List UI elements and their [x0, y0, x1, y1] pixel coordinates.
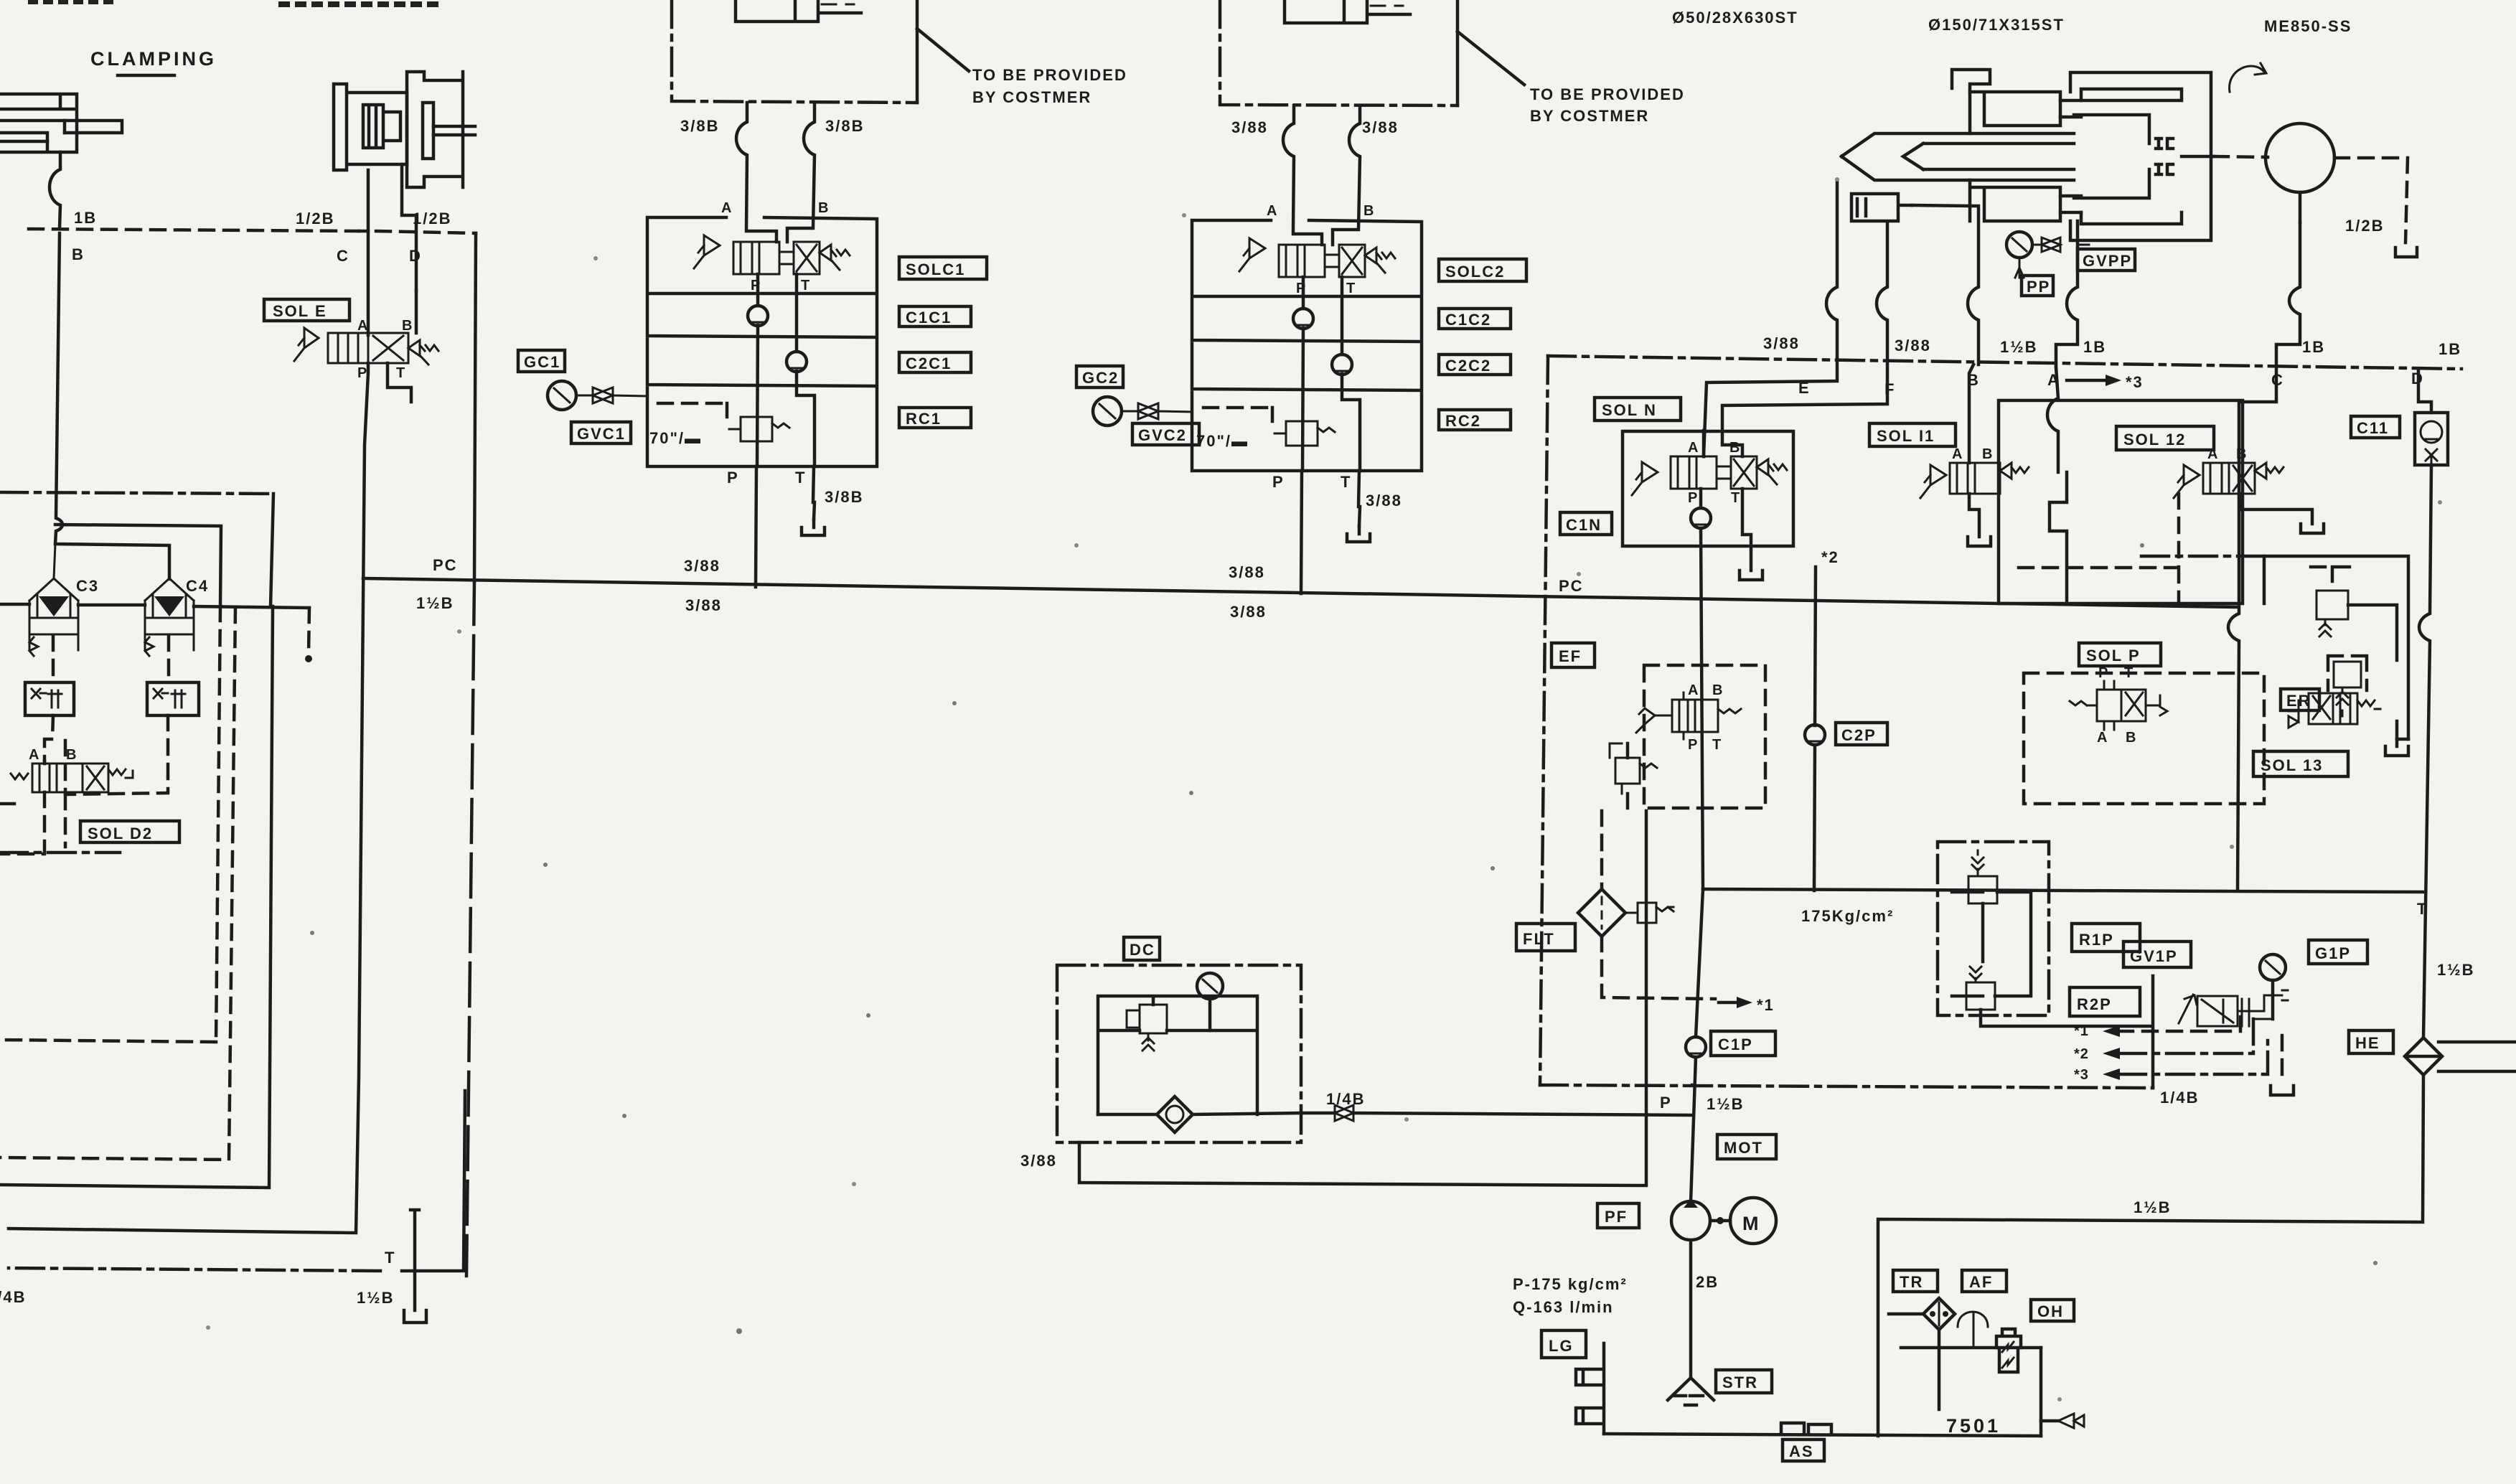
gauge GC2: [1076, 366, 1123, 388]
rotation arrow: [2230, 63, 2266, 92]
label R1P connection line: [1691, 1084, 1694, 1087]
label AS: [1783, 1440, 1824, 1461]
svg-text:1/2B: 1/2B: [296, 210, 334, 227]
check valve C11: [2415, 413, 2448, 465]
svg-text:ME850-SS: ME850-SS: [2264, 17, 2352, 35]
level gauge LG: [1576, 1343, 1604, 1434]
wire P with check: [757, 274, 758, 466]
wire SOL I1 drain: [1968, 494, 1991, 546]
wire FLT dashed connections: [1602, 811, 1715, 999]
svg-text:1/4B: 1/4B: [1326, 1090, 1365, 1108]
motor M1 circle: [2266, 123, 2334, 192]
svg-text:SOLC1: SOLC1: [906, 260, 965, 278]
label GVC1: [571, 422, 631, 443]
clamping cylinder rod: [0, 121, 65, 141]
box SOL P dashed: [2024, 673, 2264, 804]
reducing valve EF dashed box: [1644, 665, 1765, 808]
wire C below line2: [2228, 369, 2276, 891]
wire B hose loop: [787, 103, 815, 242]
strainer STR: [1668, 1378, 1714, 1405]
svg-text:T: T: [1712, 737, 1722, 753]
svg-text:FLT: FLT: [1523, 930, 1555, 948]
svg-text:B: B: [1712, 682, 1723, 698]
label C1C1: [899, 306, 971, 327]
reducing valve EF: [1636, 682, 1741, 753]
wire P to PC: [756, 466, 756, 587]
wire E line with loop: [1704, 180, 1837, 456]
heater OH: [1999, 1348, 2018, 1372]
svg-text:70"/▬: 70"/▬: [1196, 432, 1249, 450]
svg-text:3/88: 3/88: [684, 557, 720, 575]
svg-text:T: T: [795, 469, 806, 487]
svg-text:2B: 2B: [1696, 1273, 1719, 1291]
valve block 1 outline: [647, 217, 877, 466]
svg-text:175Kg/cm²: 175Kg/cm²: [1801, 907, 1894, 925]
tank under SOL13: [2385, 721, 2408, 756]
svg-text:SOL E: SOL E: [273, 302, 327, 320]
svg-text:A: A: [1952, 446, 1963, 462]
svg-text:D: D: [409, 247, 422, 265]
customer box 2 dashed: [1220, 0, 1458, 105]
svg-text:3/88: 3/88: [1020, 1152, 1057, 1170]
svg-text:1½B: 1½B: [357, 1289, 394, 1307]
wire D below line2 through C11: [2418, 369, 2431, 413]
check valve circle 1: [748, 306, 768, 326]
relief valve EF pilot: [1615, 758, 1640, 784]
svg-text:*3: *3: [2126, 373, 2144, 391]
svg-text:B: B: [1982, 446, 1993, 462]
svg-text:1B: 1B: [2302, 338, 2325, 356]
svg-text:1/2B: 1/2B: [2345, 217, 2384, 235]
svg-text:C2C1: C2C1: [906, 354, 952, 372]
wire main P line to pump: [1691, 889, 1703, 1202]
svg-text:EF: EF: [1559, 647, 1582, 665]
wire SOL N T drain: [1740, 489, 1762, 580]
reservoir tank outline: [2039, 1348, 2043, 1436]
svg-text:*1: *1: [2074, 1023, 2089, 1039]
svg-text:3/88: 3/88: [1366, 492, 1402, 509]
gauge G1P: [2260, 954, 2286, 980]
svg-text:T: T: [1731, 490, 1740, 506]
rod seals lower: [2156, 164, 2173, 174]
mounts AS: [1781, 1423, 1831, 1434]
check valve C2P: [1805, 725, 1825, 745]
label R1P: [2072, 924, 2140, 952]
rotary actuator body: [334, 84, 407, 170]
svg-text:3/8B: 3/8B: [825, 488, 863, 506]
svg-text:GVC1: GVC1: [577, 425, 626, 443]
label C2C2: [1439, 354, 1511, 375]
leader line to note 2: [1458, 32, 1524, 85]
svg-text:T: T: [1341, 473, 1351, 491]
filter FLT: [1516, 924, 1575, 951]
spindle housing outer: [2070, 72, 2211, 240]
svg-text:P: P: [357, 365, 367, 381]
svg-text:PC: PC: [433, 556, 458, 574]
wire dash-dot enclosure left edge: [1540, 356, 1548, 1085]
label SOLC1: [899, 257, 987, 279]
pump PF: [1671, 1201, 1710, 1240]
svg-text:A: A: [357, 318, 368, 334]
relief valve in block 2: [1286, 421, 1318, 446]
svg-text:RC1: RC1: [906, 410, 942, 428]
svg-text:STR: STR: [1722, 1373, 1758, 1391]
box R1P R2P dash-dot: [1938, 842, 2049, 1015]
wire E F joints at SOL N: [1702, 431, 1706, 456]
svg-text:*2: *2: [2074, 1046, 2089, 1062]
svg-text:A: A: [721, 200, 732, 216]
svg-text:BY COSTMER: BY COSTMER: [1530, 107, 1649, 125]
wire F line with loop: [1722, 222, 1887, 456]
spindle upper cylinder: [1970, 92, 2060, 133]
svg-text:R2P: R2P: [2077, 995, 2112, 1013]
svg-text:3/88: 3/88: [1362, 118, 1399, 136]
svg-text:P: P: [1688, 737, 1698, 753]
svg-text:GC2: GC2: [1082, 369, 1119, 387]
heat exchanger HE: [2405, 1038, 2442, 1075]
label SOLC2: [1439, 259, 1526, 281]
relief valve in DC: [1140, 1005, 1167, 1033]
svg-text:1B: 1B: [74, 209, 97, 227]
svg-text:3/8B: 3/8B: [680, 117, 719, 135]
svg-text:P: P: [1660, 1094, 1672, 1112]
check valve C4: [145, 545, 194, 682]
solenoid valve SOL 13: [2289, 693, 2380, 728]
label DC: [1124, 937, 1160, 960]
spindle inner sleeve: [2074, 115, 2149, 198]
svg-text:C3: C3: [76, 577, 99, 595]
wire C from actuator: [367, 170, 370, 335]
label EF: [1552, 643, 1595, 667]
wire nested dashed corner A: [0, 606, 220, 1042]
svg-text:B: B: [1967, 371, 1980, 389]
gauge in DC: [1197, 973, 1223, 999]
wire P with check 2: [1302, 277, 1303, 471]
svg-text:C1C1: C1C1: [906, 309, 952, 327]
label STR: [1716, 1370, 1772, 1393]
svg-text:B: B: [2236, 446, 2247, 462]
filter in DC: [1098, 1096, 1301, 1132]
orifice symbol left: [25, 682, 74, 715]
wire 1/4B line to P: [1301, 1113, 1691, 1115]
svg-text:SOL P: SOL P: [2086, 647, 2141, 664]
svg-text:3/88: 3/88: [1229, 563, 1265, 581]
svg-text:E: E: [1798, 379, 1811, 397]
label SOL E: [264, 299, 349, 321]
svg-text:SOL I1: SOL I1: [1877, 427, 1935, 445]
wire DC internals: [1098, 996, 1257, 1114]
wire nested corner T return: [402, 1091, 465, 1271]
svg-text:F: F: [1884, 380, 1895, 398]
node line 1B B-C-D dash-dot manifold: [29, 229, 359, 231]
check valve C1P: [1686, 1037, 1706, 1057]
wire motor down to line2: [2276, 222, 2300, 367]
svg-text:3/88: 3/88: [1763, 334, 1800, 352]
spindle lower cylinder: [1970, 180, 2060, 221]
wire A line with loop: [2056, 221, 2078, 367]
svg-text:70"/▬: 70"/▬: [649, 429, 702, 447]
drawbar rod: [1841, 133, 2074, 180]
svg-text:Q-163 l/min: Q-163 l/min: [1513, 1298, 1614, 1316]
svg-text:3/8B: 3/8B: [825, 117, 864, 135]
pressure valve SOL P: [2070, 665, 2167, 746]
box DC dash-dot: [1057, 965, 1301, 1142]
wire D to SOL E B: [415, 291, 418, 333]
label GV1P: [2123, 941, 2191, 967]
svg-text:GVC2: GVC2: [1138, 426, 1187, 444]
svg-text:P: P: [1688, 490, 1698, 506]
svg-text:3/88: 3/88: [1231, 118, 1268, 136]
svg-text:C4: C4: [186, 577, 209, 595]
wire P to PC 2: [1301, 471, 1302, 593]
label LG: [1541, 1330, 1586, 1358]
svg-text:Ø150/71X315ST: Ø150/71X315ST: [1928, 16, 2065, 34]
noise dots: [543, 863, 548, 867]
rod seals upper: [2156, 138, 2173, 149]
svg-text:MOT: MOT: [1724, 1139, 1763, 1157]
label C1N: [1560, 512, 1612, 535]
check valve circle 4: [1332, 354, 1352, 375]
svg-text:*2: *2: [1821, 548, 1839, 566]
clamping cylinder C: [0, 94, 122, 152]
check valve C1N: [1691, 508, 1711, 528]
label C11: [2351, 416, 2400, 438]
label TR: [1893, 1270, 1938, 1292]
drain valve: [2041, 1419, 2058, 1423]
svg-text:*1: *1: [1757, 996, 1775, 1014]
check valve circle 3: [1293, 309, 1313, 329]
wire dash-dot stub bottom left: [0, 851, 120, 855]
svg-text:C2P: C2P: [1841, 726, 1877, 744]
svg-text:C11: C11: [2357, 419, 2389, 437]
wire A loop below line2: [2047, 367, 2058, 472]
label SOL 13: [2253, 751, 2348, 776]
wire arrow to *3: [2067, 379, 2108, 382]
solenoid valve SOL 12: [2174, 446, 2283, 498]
rotary actuator piston: [363, 105, 400, 148]
wire dashed box around SOL D2: [0, 761, 65, 854]
sub box counterbalance: [2264, 556, 2408, 739]
node tank bottom line: [1604, 1434, 2041, 1436]
label RC1: [899, 408, 971, 428]
svg-text:B: B: [72, 245, 85, 263]
wire T return down: [1878, 1075, 2423, 1436]
shutoff valve GVC2: [1122, 403, 1192, 419]
wire B line with loop: [1968, 206, 1978, 463]
wire SOL 12 pilot dashed: [2009, 494, 2179, 604]
wire R1P R2P connections: [1952, 892, 2031, 996]
wire arrow *1: [1719, 1001, 1740, 1005]
svg-text:1½B: 1½B: [2134, 1198, 2171, 1216]
wire DC drain 3/8B: [1079, 811, 1646, 1185]
wire T with check: [797, 274, 815, 466]
svg-text:T: T: [1346, 281, 1356, 296]
label SOL 12: [2116, 426, 2214, 450]
label G1P: [2309, 940, 2367, 964]
shutoff valve GVC1: [576, 388, 647, 403]
svg-text:PC: PC: [1559, 577, 1584, 595]
valve body SOL N box: [1623, 431, 1793, 546]
svg-text:SOL N: SOL N: [1602, 401, 1657, 419]
orifice symbol right: [147, 682, 199, 715]
svg-text:PP: PP: [2027, 278, 2050, 296]
gauge PP: [2006, 232, 2032, 258]
svg-text:DC: DC: [1130, 941, 1155, 959]
node line2 E F B A C D dash-dot: [1548, 356, 2461, 369]
svg-text:TO BE PROVIDED: TO BE PROVIDED: [1530, 85, 1685, 103]
svg-text:C2C2: C2C2: [1445, 357, 1491, 375]
node P dash-dot manifold: [1540, 1085, 2153, 1088]
wire nested solid corner 1: [0, 606, 273, 1188]
relief valve R1P: [1968, 876, 1997, 903]
drain 1/2B dashed: [2334, 158, 2408, 243]
svg-text:HE: HE: [2355, 1034, 2380, 1052]
svg-text:B: B: [402, 318, 413, 334]
node 175kg junction: [1703, 889, 2423, 892]
svg-text:Ø50/28X630ST: Ø50/28X630ST: [1672, 9, 1798, 27]
svg-text:AS: AS: [1789, 1442, 1814, 1460]
svg-text:3/88: 3/88: [1230, 603, 1267, 621]
svg-text:T: T: [2124, 665, 2134, 681]
label SOL N: [1595, 398, 1681, 421]
clamp stub cylinder: [1851, 194, 1912, 221]
svg-text:P: P: [2098, 665, 2108, 681]
solenoid valve SOL C2: [1239, 238, 1395, 277]
wire A hose loop 2: [1283, 105, 1322, 245]
label SOL D2: [80, 821, 179, 842]
svg-text:A: A: [29, 747, 39, 763]
label ER: [2281, 689, 2319, 710]
spindle housing upper bracket: [1952, 70, 1990, 92]
wire T to tank 2: [1358, 471, 1360, 526]
svg-text:A: A: [1688, 682, 1699, 698]
svg-text:C1C2: C1C2: [1445, 311, 1491, 329]
svg-text:A: A: [2207, 446, 2218, 462]
svg-text:1½B: 1½B: [416, 594, 454, 612]
wire A hose loop: [736, 103, 776, 242]
svg-text:*3: *3: [2074, 1067, 2089, 1083]
svg-text:T: T: [801, 278, 810, 293]
svg-text:1B: 1B: [2438, 340, 2461, 358]
wire B-port loop: [50, 152, 60, 228]
svg-text:A: A: [2097, 730, 2108, 746]
relief valve RB: [2316, 591, 2348, 619]
shaft to motor dashed: [2182, 155, 2214, 159]
svg-text:M: M: [1742, 1213, 1762, 1234]
wire pump suction: [1689, 1240, 1693, 1376]
svg-text:BY COSTMER: BY COSTMER: [972, 88, 1092, 106]
relief valve ER: [2334, 662, 2361, 687]
wire HE water lines: [2438, 1042, 2516, 1071]
svg-text:B: B: [818, 200, 829, 216]
customer box 1 dashed: [672, 0, 917, 103]
svg-text:P-175 kg/cm²: P-175 kg/cm²: [1513, 1275, 1628, 1293]
label SOL P: [2079, 643, 2161, 666]
motor M: [1730, 1198, 1776, 1244]
tank oil level line: [1901, 1346, 2041, 1350]
svg-text:1½B: 1½B: [2000, 338, 2037, 356]
svg-text:R1P: R1P: [2079, 931, 2114, 949]
wire SOL E T to tank line: [388, 363, 411, 402]
label MOT: [1717, 1135, 1776, 1159]
svg-text:B: B: [2126, 730, 2136, 746]
svg-text:B: B: [1729, 440, 1740, 456]
svg-text:SOL 12: SOL 12: [2123, 431, 2186, 449]
wire T with check 2: [1342, 277, 1360, 471]
wire nested dashed corner B: [0, 608, 235, 1160]
svg-text:LG: LG: [1549, 1337, 1574, 1355]
svg-text:1½B: 1½B: [2437, 961, 2474, 979]
leader line to note: [917, 29, 969, 71]
wire T to tank: [813, 466, 815, 520]
wire D from actuator: [402, 164, 416, 291]
wire dash-dot to SOL D2 net: [0, 492, 273, 494]
svg-text:A: A: [1267, 203, 1277, 219]
valve GVPP bowtie: [2032, 238, 2089, 252]
svg-text:SOL 13: SOL 13: [2261, 756, 2323, 774]
svg-text:1/4B: 1/4B: [2160, 1089, 2199, 1107]
label HE: [2349, 1030, 2393, 1053]
svg-text:C1P: C1P: [1718, 1035, 1753, 1053]
wire TR dip tube: [1938, 1330, 1941, 1409]
relief valve in block 1: [741, 417, 772, 441]
wire SOL N P down: [1701, 489, 1703, 889]
svg-text:B: B: [66, 747, 77, 763]
tank drain left: [404, 1210, 426, 1323]
label C1P: [1711, 1031, 1775, 1056]
svg-text:1B: 1B: [2083, 338, 2106, 356]
wire SOL 12 drain tank: [2242, 494, 2324, 533]
svg-text:1/2B: 1/2B: [413, 210, 451, 227]
wire sub box lines: [2348, 605, 2408, 739]
svg-text:T: T: [385, 1249, 395, 1267]
svg-text:3/88: 3/88: [1895, 337, 1931, 354]
filter TR diamond: [1923, 1298, 1955, 1330]
air cylinder in box 2: [1285, 0, 1410, 23]
wire box bottom to PC: [2050, 472, 2067, 604]
label GVPP: [2078, 249, 2135, 271]
label RC2: [1439, 410, 1511, 430]
label C2C1: [899, 352, 971, 372]
svg-text:T: T: [396, 365, 405, 381]
wire TR inlet: [1889, 1312, 1923, 1316]
svg-text:TO BE PROVIDED: TO BE PROVIDED: [972, 66, 1127, 84]
svg-text:C1N: C1N: [1566, 516, 1602, 534]
svg-text:TR: TR: [1900, 1273, 1923, 1291]
svg-text:GC1: GC1: [524, 353, 560, 371]
svg-text:OH: OH: [2037, 1302, 2064, 1320]
label R2P: [2070, 987, 2140, 1016]
svg-text:T: T: [2417, 900, 2428, 918]
valve block 2 outline: [1192, 220, 1422, 471]
solenoid valve SOL N: [1632, 440, 1787, 506]
svg-text:SOLC2: SOLC2: [1445, 263, 1505, 281]
air cylinder in box 1: [736, 0, 861, 22]
svg-text:7501: 7501: [1946, 1415, 2001, 1437]
svg-text:A: A: [1688, 440, 1699, 456]
wire vertical at D branch: [474, 233, 476, 581]
gauge GC1: [518, 350, 565, 372]
check valve C3: [29, 544, 78, 682]
label OH: [2031, 1300, 2074, 1321]
relief with spring right of FLT: [1625, 903, 1674, 923]
solenoid valve SOL I1: [1920, 446, 2029, 498]
wire gauge drain dashed: [2281, 1035, 2284, 1084]
label GVC2: [1132, 423, 1199, 445]
svg-text:GV1P: GV1P: [2130, 947, 2178, 965]
svg-text:CLAMPING: CLAMPING: [90, 48, 217, 70]
svg-text:GVPP: GVPP: [2083, 252, 2132, 270]
